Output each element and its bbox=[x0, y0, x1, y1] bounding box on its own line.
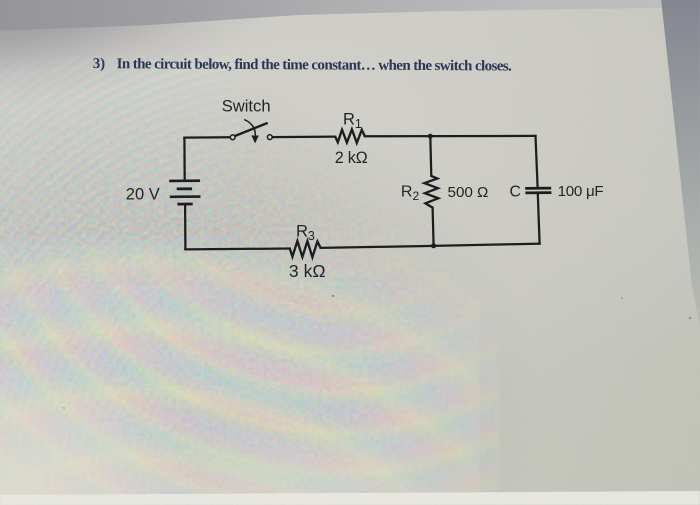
wire R2 branch vertical top bbox=[430, 136, 431, 176]
wire left vertical (bottom) bbox=[184, 205, 187, 249]
resistor R1 zigzag bbox=[335, 129, 365, 143]
wire bottom: R3 to node bbox=[321, 246, 434, 248]
node dot bottom (R2 bottom junction) bbox=[431, 243, 436, 248]
svg-text:In the circuit below, find the: In the circuit below, find the time cons… bbox=[117, 56, 512, 74]
wire top-left segment bbox=[184, 136, 230, 139]
switch motion arc bbox=[244, 120, 255, 136]
svg-text:100 μF: 100 μF bbox=[558, 183, 604, 200]
switch blade bbox=[234, 123, 266, 136]
wire top: R1 to right corner bbox=[365, 135, 536, 138]
dust speck bbox=[63, 407, 65, 409]
wire R2 branch vertical bottom bbox=[433, 208, 434, 246]
wire bottom: node to right corner bbox=[434, 244, 540, 246]
switch terminal circle right bbox=[267, 135, 272, 140]
moire rainbow (bottom-left, medium arcs) bbox=[0, 245, 500, 505]
resistor R2 zigzag (vertical) bbox=[424, 176, 438, 208]
wire right vertical (above capacitor) bbox=[536, 136, 538, 187]
node dot top (R2 top junction) bbox=[428, 134, 433, 139]
wire right vertical (below capacitor) bbox=[538, 194, 540, 244]
dust speck bbox=[689, 317, 691, 319]
svg-text:3 kΩ: 3 kΩ bbox=[289, 261, 326, 281]
svg-text:3): 3) bbox=[93, 56, 106, 72]
switch terminal circle left bbox=[230, 135, 235, 140]
svg-text:R1: R1 bbox=[343, 110, 362, 131]
battery 20V plates bbox=[169, 181, 200, 204]
wire top: switch to R1 bbox=[272, 135, 335, 138]
svg-text:R2: R2 bbox=[401, 184, 420, 203]
resistor R3 zigzag bbox=[290, 241, 321, 257]
moire rainbow (left column, fine rings) bbox=[0, 55, 240, 505]
svg-text:C: C bbox=[510, 183, 521, 200]
switch arrow head bbox=[251, 136, 258, 144]
wire bottom: left corner to R3 bbox=[185, 247, 289, 250]
top screen edge band bbox=[0, 0, 700, 36]
svg-text:2 kΩ: 2 kΩ bbox=[335, 149, 368, 167]
capacitor C plates bbox=[525, 188, 551, 193]
top gray shading: corner shadow bbox=[0, 0, 700, 170]
dust speck bbox=[332, 295, 334, 297]
svg-text:20 V: 20 V bbox=[126, 186, 160, 204]
problem title text bbox=[93, 56, 512, 75]
svg-text:Switch: Switch bbox=[222, 97, 271, 116]
svg-text:R3: R3 bbox=[296, 223, 315, 244]
svg-text:500 Ω: 500 Ω bbox=[448, 184, 489, 201]
dust speck bbox=[621, 297, 623, 299]
wire left vertical (top) bbox=[183, 138, 186, 180]
